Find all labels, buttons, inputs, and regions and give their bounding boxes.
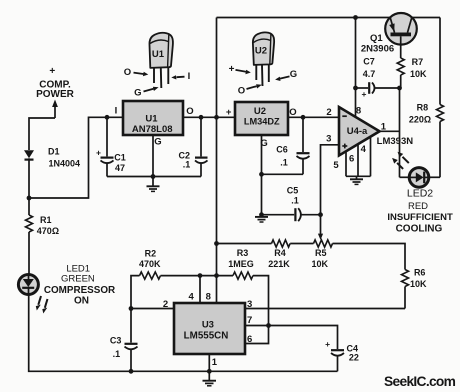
IC U1 AN78L08 regulator — [123, 101, 183, 135]
node pin 2 / R2 / C3 junction — [129, 306, 134, 311]
wire R2 left column — [131, 276, 140, 309]
svg-text:R3: R3 — [237, 248, 249, 258]
transistor Q1 2N3906 — [361, 13, 417, 58]
wire comparator output column — [380, 88, 410, 177]
svg-text:R2: R2 — [145, 249, 157, 259]
wire pin 7 of U3 — [245, 325, 269, 327]
svg-text:22: 22 — [349, 353, 359, 363]
wire pin 2 of U3 — [131, 308, 174, 310]
capacitor C1 47 — [96, 117, 126, 176]
package TO-92 of U1 — [149, 33, 172, 88]
svg-text:LED2: LED2 — [407, 188, 433, 200]
wire comparator pin 8 supply — [355, 18, 357, 118]
svg-text:4: 4 — [189, 292, 195, 303]
svg-text:LM34DZ: LM34DZ — [244, 117, 280, 127]
capacitor C6 .1 — [262, 117, 310, 174]
wire R3 to pins 6 7 column — [253, 276, 269, 326]
resistor R2 470K — [139, 249, 233, 280]
capacitor C3 .1 — [110, 309, 138, 372]
op-amp U4-a LM393N — [339, 107, 380, 156]
svg-text:.1: .1 — [291, 196, 299, 206]
svg-text:C3: C3 — [110, 335, 122, 345]
IC U3 LM555CN timer — [174, 303, 245, 354]
node main vertical rail top junction — [214, 115, 219, 120]
svg-text:LM393N: LM393N — [377, 136, 414, 147]
node C2 junction — [199, 115, 204, 120]
node V+ to R2 R3 row junction — [214, 273, 219, 278]
wire D1 node to U1 input rail — [29, 117, 123, 198]
svg-text:AN78L08: AN78L08 — [132, 124, 173, 135]
svg-text:10K: 10K — [410, 279, 427, 289]
wire top V+ rail — [217, 17, 441, 19]
svg-text:47: 47 — [115, 163, 125, 173]
node C5 right junction — [318, 212, 323, 217]
svg-text:U2: U2 — [254, 106, 266, 117]
svg-text:Q1: Q1 — [370, 33, 383, 44]
svg-text:R1: R1 — [40, 215, 52, 225]
node C5 left junction with ground — [259, 212, 264, 217]
node top rail to comparator supply — [353, 15, 358, 20]
svg-text:U1: U1 — [152, 49, 165, 60]
svg-text:I: I — [188, 71, 191, 82]
node pins 6 7 junction — [266, 323, 271, 328]
ground below U1 — [147, 177, 160, 192]
resistor R1 470 ohm — [26, 198, 60, 275]
svg-text:2N3906: 2N3906 — [361, 44, 394, 55]
node pin 4 junction — [198, 273, 203, 278]
svg-text:6: 6 — [349, 154, 354, 165]
ground below U2 G — [255, 215, 268, 222]
svg-text:5: 5 — [333, 160, 339, 171]
svg-text:R8: R8 — [417, 103, 429, 113]
svg-text:GREEN: GREEN — [61, 274, 95, 285]
node pin 1 ground rail junction — [207, 369, 212, 374]
LED1 green compressor on — [18, 264, 115, 314]
pin arrow G of U1 package — [134, 87, 158, 99]
wire R5 to R6 corner — [333, 244, 406, 270]
svg-text:G: G — [154, 137, 161, 148]
svg-text:G: G — [290, 69, 297, 80]
potentiometer wiper arrow into R5 — [318, 234, 323, 240]
resistor R8 220 ohm — [409, 18, 444, 178]
pin arrow O of U1 package — [124, 67, 148, 78]
svg-text:R7: R7 — [412, 57, 424, 67]
svg-text:R6: R6 — [414, 268, 426, 278]
wire pins 6 7 to C4 — [269, 326, 338, 350]
svg-text:U2: U2 — [255, 46, 267, 57]
wire pin 3 of U3 to R6 — [245, 308, 405, 310]
wire comparator pins 5 6 4 to ground — [346, 137, 371, 177]
svg-text:COMPRESSOR: COMPRESSOR — [44, 285, 115, 296]
svg-text:C6: C6 — [276, 145, 288, 155]
svg-text:+: + — [96, 147, 101, 157]
resistor R4 221K — [268, 240, 290, 269]
svg-text:470Ω: 470Ω — [37, 226, 59, 236]
resistor R6 10K — [402, 268, 428, 309]
svg-text:+: + — [226, 107, 232, 118]
wire pin 6 of U3 — [245, 326, 269, 344]
svg-text:+: + — [229, 64, 235, 75]
svg-text:LM555CN: LM555CN — [184, 331, 229, 342]
ground below comparator — [350, 176, 363, 184]
svg-text:ON: ON — [74, 296, 89, 307]
svg-text:U3: U3 — [202, 320, 214, 331]
pin arrow G of U2 package — [275, 69, 297, 81]
package TO-92 of U2 — [253, 32, 274, 86]
wire pin 1 of U3 to ground — [208, 354, 210, 380]
svg-text:U4-a: U4-a — [347, 126, 368, 137]
svg-text:.1: .1 — [113, 349, 121, 359]
svg-text:7: 7 — [247, 315, 252, 326]
svg-text:I: I — [115, 105, 118, 116]
svg-text:INSUFFICIENT: INSUFFICIENT — [387, 212, 453, 223]
svg-text:R5: R5 — [315, 248, 327, 258]
svg-text:C7: C7 — [363, 57, 375, 67]
svg-text:.1: .1 — [280, 158, 288, 168]
svg-text:R4: R4 — [274, 248, 286, 258]
svg-text:.1: .1 — [183, 160, 191, 170]
node U1 ground junction — [151, 174, 156, 179]
svg-text:COOLING: COOLING — [396, 224, 443, 235]
svg-text:4.7: 4.7 — [363, 69, 376, 79]
svg-text:C5: C5 — [287, 185, 299, 195]
node C6 junction — [301, 115, 306, 120]
svg-text:221K: 221K — [268, 259, 290, 269]
node C3 to ground rail — [129, 369, 134, 374]
svg-text:470K: 470K — [139, 259, 161, 269]
svg-text:U1: U1 — [145, 114, 158, 125]
node pin8 / C7 junction — [353, 86, 358, 91]
wire U1 output rail to U2 — [183, 116, 235, 118]
pin arrow I of U1 package — [171, 71, 190, 82]
node C7 / R7 / output junction — [397, 86, 402, 91]
svg-text:POWER: POWER — [36, 89, 75, 100]
wire R4 R5 row — [217, 243, 272, 245]
wire comparator pin 3 input — [321, 145, 340, 235]
svg-text:4: 4 — [361, 144, 367, 155]
wire U2 G pin down — [261, 135, 263, 215]
svg-text:O: O — [238, 85, 245, 96]
svg-text:8: 8 — [206, 292, 211, 303]
svg-text:O: O — [124, 67, 131, 78]
svg-text:10K: 10K — [312, 259, 329, 269]
ground below U3 pin 1 — [203, 381, 217, 386]
wire U1 local ground rail — [107, 176, 201, 178]
LED2 red insufficient cooling — [387, 152, 453, 235]
node D1 cathode junction — [27, 196, 32, 201]
svg-text:C1: C1 — [114, 153, 126, 163]
capacitor C2 .1 — [179, 117, 208, 176]
node V+ to R4 row junction — [214, 241, 219, 246]
wire main V+ vertical rail — [216, 18, 218, 304]
node C1 junction — [105, 115, 110, 120]
svg-text:1N4004: 1N4004 — [49, 158, 81, 168]
svg-text:G: G — [134, 87, 141, 98]
wire comp power to D1 — [29, 118, 55, 150]
svg-text:1MEG: 1MEG — [228, 259, 254, 269]
svg-text:O: O — [186, 106, 193, 117]
diode D1 1N4004 — [24, 147, 80, 199]
svg-text:10K: 10K — [410, 69, 427, 79]
svg-text:+: + — [362, 89, 367, 99]
wire U1 G pin to ground — [152, 135, 154, 177]
svg-text:1: 1 — [212, 357, 218, 368]
svg-text:D1: D1 — [48, 147, 60, 157]
svg-text:RED: RED — [408, 201, 428, 212]
svg-text:3: 3 — [326, 134, 331, 145]
wire between R4 and R5 — [290, 243, 313, 245]
svg-text:O: O — [289, 107, 296, 118]
pin arrow O of U2 package — [238, 84, 262, 96]
wire U2 output to comparator pin 2 — [288, 116, 339, 118]
potentiometer R5 10K — [312, 240, 333, 269]
capacitor C7 4.7 — [356, 57, 400, 100]
resistor R7 10K — [397, 57, 427, 88]
svg-text:8: 8 — [356, 106, 361, 117]
capacitor C4 22 — [325, 339, 359, 371]
pin arrow + of U2 package — [229, 64, 251, 75]
IC U2 LM34DZ temperature sensor — [235, 102, 288, 135]
capacitor C5 .1 — [262, 185, 321, 221]
resistor R3 1MEG — [228, 248, 254, 279]
svg-text:+: + — [325, 339, 330, 349]
wire pin 4 column — [199, 276, 201, 303]
node U2 G / C6 junction — [259, 172, 264, 177]
svg-text:2: 2 — [326, 107, 331, 118]
svg-text:SeekIC.com: SeekIC.com — [384, 374, 456, 389]
svg-text:220Ω: 220Ω — [409, 114, 431, 124]
wire LED1 to ground rail — [29, 293, 338, 371]
node COMP POWER input arrow — [36, 66, 75, 118]
svg-text:+: + — [49, 66, 55, 77]
